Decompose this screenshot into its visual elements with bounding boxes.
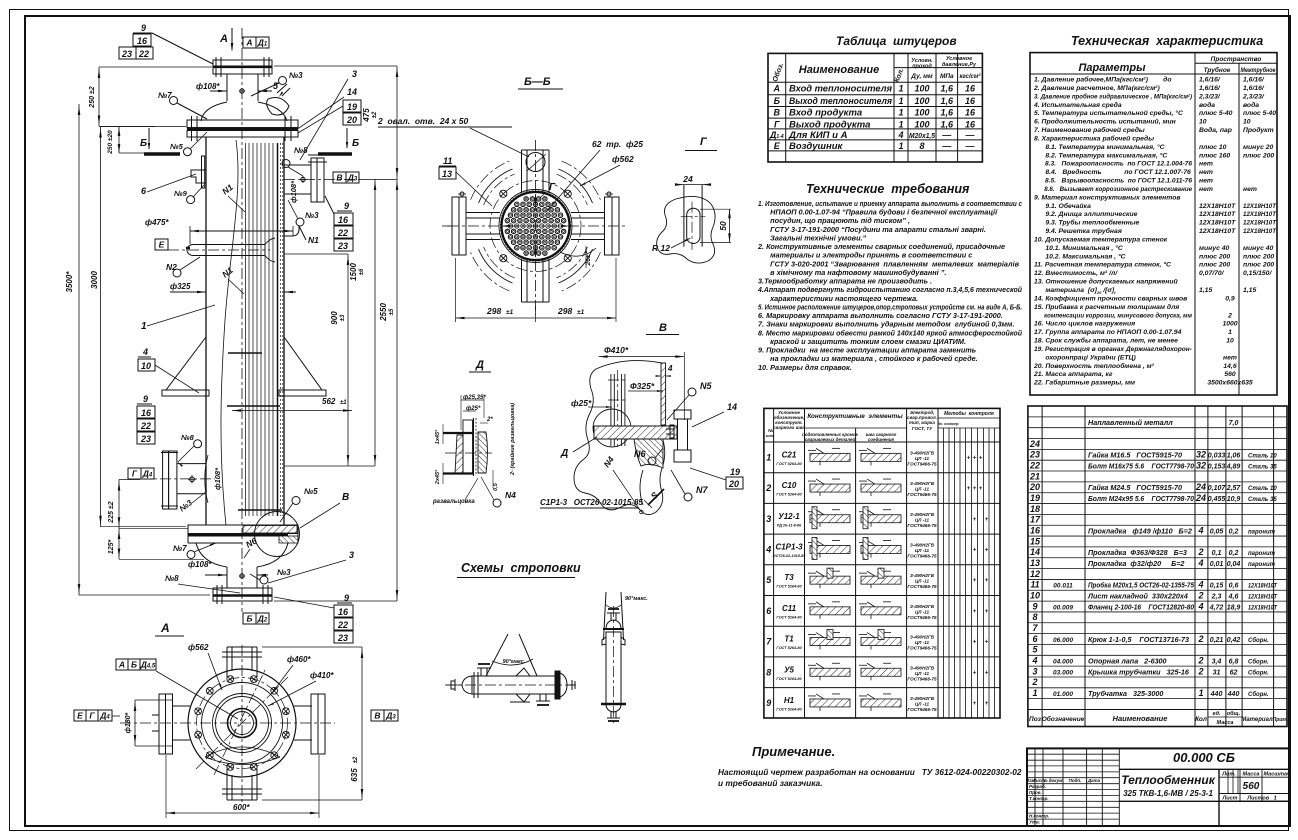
svg-text:Вход продукта: Вход продукта <box>789 108 862 119</box>
svg-text:3. Давление пробное гидравличе: 3. Давление пробное гидравлическое , МПа… <box>1034 92 1193 100</box>
svg-text:24: 24 <box>1195 493 1206 503</box>
svg-text:Ду, мм: Ду, мм <box>910 73 933 80</box>
svg-text:10: 10 <box>1243 119 1251 126</box>
title block frame <box>1027 748 1290 826</box>
svg-text:Схемы строповки: Схемы строповки <box>461 561 581 575</box>
svg-text:—: — <box>941 130 952 140</box>
svg-text:В: В <box>774 108 781 118</box>
svg-text:N2: N2 <box>166 262 177 272</box>
svg-text:9. Материал конструктивных эле: 9. Материал конструктивных элементов <box>1034 194 1181 201</box>
svg-text:3: 3 <box>1032 666 1037 676</box>
sling vertical centerline <box>613 606 615 724</box>
svg-text:5. Температура испытательной с: 5. Температура испытательной среды, °С <box>1034 109 1183 117</box>
view Г blob outline <box>657 196 715 263</box>
svg-text:плюс 160: плюс 160 <box>1199 152 1230 159</box>
svg-text:00.000 СБ: 00.000 СБ <box>1173 750 1235 765</box>
svg-text:7,0: 7,0 <box>1229 420 1239 427</box>
svg-text:ф25*: ф25* <box>571 398 592 408</box>
svg-text:16: 16 <box>338 215 349 225</box>
nozzle B bolts <box>308 154 327 156</box>
svg-text:плюс 5-40: плюс 5-40 <box>1243 110 1276 117</box>
svg-text:Б—Б: Б—Б <box>524 76 551 88</box>
svg-text:+: + <box>967 486 971 492</box>
svg-text:20: 20 <box>1029 482 1040 492</box>
svg-text:23: 23 <box>337 241 348 251</box>
svg-text:ГОСТ9466-75: ГОСТ9466-75 <box>907 646 937 651</box>
svg-text:паронит: паронит <box>1248 551 1276 557</box>
svg-text:У12-1: У12-1 <box>778 512 800 521</box>
svg-text:и требований заказчика.: и требований заказчика. <box>718 778 822 788</box>
svg-text:Прокладка ф149 /ф110 Б=2: Прокладка ф149 /ф110 Б=2 <box>1088 526 1192 535</box>
svg-text:600*: 600* <box>233 803 250 812</box>
parts list grid <box>1028 406 1287 727</box>
svg-text:нет: нет <box>1199 186 1213 193</box>
svg-text:6,8: 6,8 <box>1229 659 1239 666</box>
svg-text:90°макс.: 90°макс. <box>625 596 648 602</box>
svg-text:0,153: 0,153 <box>1208 463 1226 470</box>
svg-text:ф108*: ф108* <box>289 180 298 203</box>
dimension 900 right <box>347 254 349 466</box>
svg-text:0,05: 0,05 <box>1210 528 1224 535</box>
svg-text:+: + <box>979 486 983 492</box>
svg-text:2: 2 <box>1197 656 1203 666</box>
svg-text:Для КИП и А: Для КИП и А <box>788 130 848 141</box>
svg-text:1: 1 <box>1032 688 1037 698</box>
svg-text:20: 20 <box>728 479 739 489</box>
svg-text:Продукт: Продукт <box>1243 126 1274 134</box>
svg-text:+: + <box>979 455 983 461</box>
svg-text:31: 31 <box>1213 669 1221 676</box>
svg-text:М20х1,5: М20х1,5 <box>909 131 936 140</box>
dimension 3000 <box>100 127 102 527</box>
svg-text:Г: Г <box>549 182 556 193</box>
svg-text:ГОСТ 5264-80: ГОСТ 5264-80 <box>776 493 802 497</box>
svg-text:440: 440 <box>1227 691 1240 698</box>
dimension 125 <box>118 528 120 559</box>
svg-text:Г: Г <box>774 119 780 129</box>
svg-text:охоронпраці України (ЕТЦ): охоронпраці України (ЕТЦ) <box>1034 353 1136 361</box>
svg-text:+: + <box>985 701 989 707</box>
main flange bolts <box>191 116 193 141</box>
svg-text:1. Давление рабочее,МПа(кгс/см: 1. Давление рабочее,МПа(кгс/см2) до <box>1034 76 1172 84</box>
svg-text:ед.: ед. <box>1212 711 1221 717</box>
label boxes В Д3 view A <box>371 710 384 721</box>
oval hole top nozzle <box>526 153 545 172</box>
svg-text:3500*: 3500* <box>65 271 74 293</box>
svg-text:минус 40: минус 40 <box>1199 245 1230 252</box>
svg-text:Ф410*: Ф410* <box>604 345 629 355</box>
svg-text:Примечание.: Примечание. <box>752 744 835 759</box>
detail В tubes <box>610 374 612 446</box>
svg-text:проход: проход <box>912 64 932 70</box>
bottom flange gasket thick <box>188 533 288 536</box>
svg-text:2: 2 <box>1197 591 1203 601</box>
shell curve near nozzle Г <box>205 455 208 503</box>
label В Д3 boxes right <box>333 172 346 183</box>
svg-text:440: 440 <box>1210 691 1223 698</box>
svg-text:ф460*: ф460* <box>287 655 311 664</box>
svg-text:ГОСТ9466-75: ГОСТ9466-75 <box>907 584 937 589</box>
dimension 3500 <box>78 104 80 595</box>
svg-text:В: В <box>336 172 342 182</box>
svg-text:10.1. Минимальная , °С: 10.1. Минимальная , °С <box>1034 244 1123 252</box>
svg-text:10,9: 10,9 <box>1227 496 1241 503</box>
svg-text:4,72: 4,72 <box>1209 604 1224 611</box>
svg-text:1,06: 1,06 <box>1227 453 1241 460</box>
svg-text:№5: №5 <box>304 487 318 496</box>
svg-text:+: + <box>985 670 989 676</box>
detail В wavy shell bottom <box>640 470 643 505</box>
svg-text:62 тр. ф25: 62 тр. ф25 <box>592 139 643 149</box>
sling horizontal hook bottom <box>516 694 530 702</box>
svg-text:0,5: 0,5 <box>493 482 499 491</box>
svg-text:0,9: 0,9 <box>1225 295 1235 302</box>
centerline nozzle B <box>284 179 360 181</box>
svg-text:Н1: Н1 <box>784 696 795 705</box>
svg-text:1: 1 <box>898 108 903 118</box>
detail Д left hatched block <box>455 435 463 474</box>
sling horizontal top nozzle <box>480 668 482 676</box>
svg-text:18: 18 <box>1030 504 1040 514</box>
section Б-Б centerlines <box>535 140 537 315</box>
svg-text:10. Допускаемая температура ст: 10. Допускаемая температура стенок <box>1034 236 1168 243</box>
svg-text:8.2. Температура максимальная,: 8.2. Температура максимальная, °С <box>1034 151 1167 159</box>
tube sheet circles <box>502 192 570 260</box>
svg-text:16: 16 <box>965 84 976 94</box>
detail Д centerline <box>445 452 492 454</box>
svg-text:2: 2 <box>1197 666 1203 676</box>
svg-text:№8: №8 <box>165 574 179 583</box>
svg-text:1: 1 <box>898 119 903 129</box>
svg-text:4: 4 <box>1197 580 1203 590</box>
svg-text:12Х18Н10Т: 12Х18Н10Т <box>1243 203 1277 210</box>
bottom flange upper plate <box>188 525 298 534</box>
dimension 475 right <box>396 66 398 179</box>
svg-text:Разраб.: Разраб. <box>1029 783 1046 789</box>
svg-text:23: 23 <box>121 49 132 59</box>
svg-text:Болт М24х95 5.6 ГОСТ7798-70: Болт М24х95 5.6 ГОСТ7798-70 <box>1088 494 1194 503</box>
svg-text:1,6: 1,6 <box>941 119 955 129</box>
svg-text:В: В <box>374 710 380 720</box>
svg-text:±6: ±6 <box>359 268 365 275</box>
svg-text:Конструктивные элементы: Конструктивные элементы <box>807 413 903 420</box>
top nozzle of view A <box>226 647 228 677</box>
label Г Д4 boxes <box>128 468 141 479</box>
sling horizontal right head <box>560 673 567 697</box>
svg-text:+: + <box>967 455 971 461</box>
svg-text:0,2: 0,2 <box>1229 550 1239 557</box>
svg-text:плюс 10: плюс 10 <box>1199 144 1227 151</box>
detail Д circle on В <box>593 409 631 447</box>
svg-text:Е: Е <box>774 141 781 151</box>
svg-text:1500: 1500 <box>349 263 358 281</box>
baffle plates <box>228 352 262 354</box>
sling vertical vessel body <box>606 632 621 704</box>
nozzle B right side <box>284 164 311 166</box>
svg-text:№3: №3 <box>277 568 291 577</box>
svg-text:минус 40: минус 40 <box>1243 245 1274 252</box>
sling horizontal centerline <box>445 684 578 686</box>
svg-text:Теплообменник: Теплообменник <box>1121 773 1215 787</box>
svg-text:4: 4 <box>1197 601 1203 611</box>
svg-text:С1Р1-3: С1Р1-3 <box>775 542 803 551</box>
view Г oval hole <box>687 208 700 243</box>
dimension 250 second <box>118 127 120 153</box>
svg-text:16: 16 <box>965 96 976 106</box>
svg-text:ЦЛ -11: ЦЛ -11 <box>915 517 930 522</box>
svg-text:Сталь 10: Сталь 10 <box>1248 486 1277 492</box>
svg-text:Наименование: Наименование <box>1113 714 1168 723</box>
svg-text:0,033: 0,033 <box>1208 453 1226 460</box>
svg-text:21. Масса аппарата, кг: 21. Масса аппарата, кг <box>1033 371 1113 378</box>
svg-text:1,6/16/: 1,6/16/ <box>1243 77 1265 84</box>
title block main cells <box>1119 768 1290 770</box>
svg-text:100: 100 <box>914 96 929 106</box>
svg-text:плюс 200: плюс 200 <box>1199 253 1230 260</box>
svg-text:16: 16 <box>1030 525 1041 535</box>
svg-text:Пров.: Пров. <box>1029 790 1042 795</box>
svg-text:Трубчатка 325-3000: Трубчатка 325-3000 <box>1088 689 1163 698</box>
svg-text:0,1: 0,1 <box>1212 550 1222 557</box>
svg-text:Сталь 35: Сталь 35 <box>1248 497 1277 503</box>
svg-text:Масса: Масса <box>1243 772 1260 778</box>
svg-text:С11: С11 <box>782 604 797 613</box>
svg-text:22: 22 <box>337 620 348 630</box>
svg-text:З-490Н2ГВ: З-490Н2ГВ <box>910 665 935 670</box>
svg-text:вода: вода <box>1199 101 1215 109</box>
svg-text:Обозначение: Обозначение <box>1042 715 1085 723</box>
detail В shell plate hatched <box>661 363 666 425</box>
svg-text:0,6: 0,6 <box>1229 583 1239 590</box>
svg-text:0,04: 0,04 <box>1227 561 1241 568</box>
svg-text:3: 3 <box>766 514 771 524</box>
svg-text:1,15: 1,15 <box>1199 287 1212 294</box>
sling angle arc vertical <box>606 605 621 608</box>
label E box <box>155 239 168 250</box>
right nozzle of view A <box>294 705 312 707</box>
svg-text:минус 20: минус 20 <box>1243 144 1274 151</box>
outer flange arcs <box>559 249 593 283</box>
svg-text:ф410*: ф410* <box>310 671 334 680</box>
sling horizontal left head <box>462 676 472 694</box>
bottom nozzle of view A <box>226 769 228 800</box>
svg-text:+: + <box>973 517 977 523</box>
svg-text:тип, марка: тип, марка <box>909 420 935 425</box>
svg-text:С21: С21 <box>782 450 797 459</box>
svg-text:Наименование: Наименование <box>799 64 880 76</box>
label Б Д2 boxes bottom <box>243 613 256 624</box>
svg-text:В: В <box>659 322 667 334</box>
svg-text:2. Давление расчетное, МПа(кгс: 2. Давление расчетное, МПа(кгс/см2) <box>1033 84 1160 92</box>
svg-text:Г: Г <box>89 710 95 720</box>
svg-text:N5: N5 <box>700 381 712 391</box>
svg-text:ф475*: ф475* <box>145 218 169 227</box>
svg-text:06.000: 06.000 <box>1053 637 1073 644</box>
svg-text:Гайка М24.5 ГОСТ5915-70: Гайка М24.5 ГОСТ5915-70 <box>1088 483 1182 492</box>
svg-text:2▫ (крайние развальцовка): 2▫ (крайние развальцовка) <box>509 403 516 476</box>
svg-text:+: + <box>985 640 989 646</box>
svg-text:Методы контроля: Методы контроля <box>944 411 994 417</box>
wedge break at bottom <box>205 747 280 765</box>
svg-text:24: 24 <box>682 174 693 184</box>
svg-text:3: 3 <box>352 69 357 79</box>
svg-text:1: 1 <box>141 321 147 332</box>
svg-text:4: 4 <box>667 364 673 373</box>
svg-text:03.000: 03.000 <box>1053 669 1073 676</box>
svg-text:А: А <box>773 84 781 94</box>
svg-text:4: 4 <box>1197 558 1203 568</box>
svg-text:Техническая характеристика: Техническая характеристика <box>1071 34 1263 48</box>
svg-text:Параметры: Параметры <box>1078 62 1146 74</box>
svg-text:Прокладка Ф363/Ф328 Б=3: Прокладка Ф363/Ф328 Б=3 <box>1088 548 1187 557</box>
detail Д right hatched block <box>478 432 488 473</box>
svg-text:Фланец 2-100-16 ГОСТ12820-8: Фланец 2-100-16 ГОСТ12820-80 <box>1088 602 1194 611</box>
tube field <box>524 197 529 202</box>
svg-text:298: 298 <box>486 306 501 316</box>
sling ropes horizontal <box>486 634 508 676</box>
svg-text:Болт М16х75 5.6 ГОСТ7798-70: Болт М16х75 5.6 ГОСТ7798-70 <box>1088 461 1194 470</box>
svg-text:12Х18Н10Т: 12Х18Н10Т <box>1199 203 1236 210</box>
svg-text:+: + <box>973 609 977 615</box>
svg-text:2,3: 2,3 <box>1211 594 1222 601</box>
bottom nozzle flange <box>213 588 272 601</box>
svg-text:ЦЛ -11: ЦЛ -11 <box>915 640 930 645</box>
svg-text:2х45°: 2х45° <box>435 469 441 485</box>
label boxes Е Г Д4 view A <box>74 710 86 721</box>
svg-text:паронит: паронит <box>1248 529 1276 535</box>
svg-text:Дата: Дата <box>1087 778 1101 783</box>
svg-text:Прокладка ф32/ф20 Б=2: Прокладка ф32/ф20 Б=2 <box>1088 559 1184 568</box>
bolt holes <box>283 731 290 738</box>
vessel top head dome <box>201 102 227 121</box>
svg-text:562: 562 <box>322 397 336 406</box>
svg-text:Сборн.: Сборн. <box>1248 691 1269 698</box>
svg-text:Е: Е <box>159 239 165 249</box>
svg-text:Масса: Масса <box>1217 720 1234 726</box>
svg-text:А: А <box>219 33 228 45</box>
svg-text:Лит.: Лит. <box>1221 772 1236 778</box>
label boxes А Д1 top <box>243 37 256 48</box>
svg-text:Межтрубное: Межтрубное <box>1241 67 1276 74</box>
svg-text:Листов 1: Листов 1 <box>1246 796 1276 802</box>
svg-text:Воздушник: Воздушник <box>789 141 844 152</box>
svg-text:17: 17 <box>1030 515 1041 525</box>
svg-text:ф108*: ф108* <box>188 560 212 569</box>
svg-text:10: 10 <box>1030 591 1040 601</box>
svg-text:635: 635 <box>350 768 359 782</box>
svg-text:12Х18Н10Т: 12Х18Н10Т <box>1243 220 1277 227</box>
svg-text:вода: вода <box>1243 101 1259 109</box>
svg-text:№7: №7 <box>173 544 187 553</box>
main view centerline <box>241 28 243 612</box>
svg-text:4,6: 4,6 <box>1228 594 1239 601</box>
svg-text:3: 3 <box>349 550 354 560</box>
svg-text:8. Характеристика рабочей сред: 8. Характеристика рабочей среды <box>1034 134 1154 142</box>
svg-text:15: 15 <box>1030 536 1041 546</box>
svg-text:9: 9 <box>141 23 146 33</box>
svg-text:+: + <box>985 578 989 584</box>
svg-text:шва: шва <box>766 433 775 438</box>
svg-text:100: 100 <box>914 84 929 94</box>
sling horizontal vessel body <box>472 676 556 694</box>
svg-text:А: А <box>245 37 252 47</box>
svg-text:2 овал. отв. 24 х 50: 2 овал. отв. 24 х 50 <box>377 116 468 126</box>
svg-text:04.000: 04.000 <box>1053 659 1073 666</box>
svg-text:Подп.: Подп. <box>1069 778 1082 783</box>
svg-text:ГОСТ9466-75: ГОСТ9466-75 <box>907 461 937 466</box>
svg-text:9: 9 <box>766 698 771 708</box>
svg-text:ф108*: ф108* <box>213 467 222 490</box>
shell right wall <box>283 137 285 525</box>
svg-text:8.3. Пожароопасность по ГОС: 8.3. Пожароопасность по ГОСТ 12.1.004-76 <box>1034 161 1192 168</box>
bottom flange bolts <box>216 585 218 604</box>
svg-text:плюс 5-40: плюс 5-40 <box>1199 110 1233 117</box>
svg-text:250 ±20: 250 ±20 <box>107 130 114 155</box>
svg-text:Трубное: Трубное <box>1204 66 1231 74</box>
svg-text:8.1. Температура минимальная,: 8.1. Температура минимальная, °С <box>1034 143 1165 151</box>
svg-text:Поз: Поз <box>1029 716 1042 723</box>
svg-text:9.3. Трубы теплообменные: 9.3. Трубы теплообменные <box>1034 219 1140 227</box>
svg-text:Утв.: Утв. <box>1029 820 1040 825</box>
diagonal centerlines view A <box>196 677 288 769</box>
svg-text:А: А <box>118 659 125 669</box>
svg-text:Т1: Т1 <box>784 635 794 644</box>
svg-text:16: 16 <box>137 36 148 46</box>
svg-text:Ф325*: Ф325* <box>630 381 655 391</box>
svg-text:ГОСТ 5264-80: ГОСТ 5264-80 <box>776 585 802 589</box>
detail Д tube wall <box>473 418 475 476</box>
svg-text:16. Число циклов нагружения: 16. Число циклов нагружения <box>1034 321 1135 328</box>
weld table grid <box>764 408 1000 718</box>
svg-text:З-490Н2ГВ: З-490Н2ГВ <box>910 542 935 547</box>
svg-text:11: 11 <box>1030 580 1039 590</box>
svg-text:Сборн.: Сборн. <box>1248 637 1269 644</box>
svg-text:11. Расчетная температура стен: 11. Расчетная температура стенок, °С <box>1034 261 1171 269</box>
sling vertical top nozzle <box>610 613 612 620</box>
svg-text:9: 9 <box>344 593 349 603</box>
svg-text:Опорная лапа 2-6300: Опорная лапа 2-6300 <box>1088 657 1167 666</box>
svg-text:Настоящий чертеж разработан на: Настоящий чертеж разработан на основании… <box>718 767 1022 777</box>
svg-text:0,107: 0,107 <box>1208 485 1227 492</box>
cutaway break line <box>221 140 238 525</box>
nozzle junction lenses <box>568 213 571 239</box>
svg-text:Сталь 10: Сталь 10 <box>1248 454 1277 460</box>
svg-text:0,15/150/: 0,15/150/ <box>1243 270 1272 277</box>
svg-text:1: 1 <box>1198 688 1203 698</box>
svg-text:4. Испытательная среда: 4. Испытательная среда <box>1033 101 1122 109</box>
svg-text:Гайка М16.5 ГОСТ5915-70: Гайка М16.5 ГОСТ5915-70 <box>1088 451 1182 460</box>
svg-text:10. Размеры для справок.: 10. Размеры для справок. <box>758 363 852 372</box>
svg-text:ЦЛ -11: ЦЛ -11 <box>915 487 930 492</box>
svg-text:14: 14 <box>1030 547 1040 557</box>
svg-text:8.6. Вызывает коррозионное р: 8.6. Вызывает коррозионное растрескивани… <box>1034 186 1192 193</box>
view direction arrow A <box>231 28 233 50</box>
svg-text:11: 11 <box>443 156 452 166</box>
svg-text:З-490Н2ГВ: З-490Н2ГВ <box>910 512 935 517</box>
svg-text:ЦЛ -11: ЦЛ -11 <box>915 609 930 614</box>
svg-text:Выход теплоносителя: Выход теплоносителя <box>789 96 892 107</box>
svg-text:ГОСТ 5264-80: ГОСТ 5264-80 <box>776 646 802 650</box>
svg-text:0,01: 0,01 <box>1210 561 1224 568</box>
dimension 225 <box>118 480 120 529</box>
svg-text:ЦЛ -11: ЦЛ -11 <box>915 671 930 676</box>
svg-text:Выход продукта: Выход продукта <box>789 119 870 130</box>
svg-text:плюс 200: плюс 200 <box>1243 262 1274 269</box>
nozzle bracket left <box>202 156 205 188</box>
svg-text:15. Прибавка к расчетным толщи: 15. Прибавка к расчетным толщинам для <box>1034 303 1179 311</box>
svg-text:10: 10 <box>141 361 151 371</box>
svg-text:0,07/70/: 0,07/70/ <box>1199 270 1225 277</box>
